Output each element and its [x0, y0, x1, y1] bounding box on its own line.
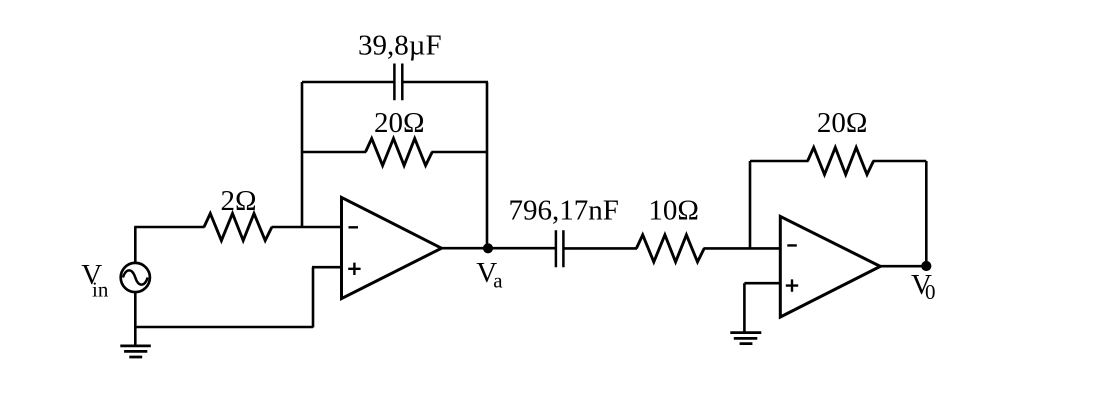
svg-text:796,17nF: 796,17nF	[509, 194, 619, 226]
svg-text:a: a	[493, 269, 503, 293]
svg-text:20Ω: 20Ω	[817, 107, 868, 139]
svg-text:2Ω: 2Ω	[220, 185, 256, 217]
svg-text:in: in	[92, 278, 109, 302]
svg-text:20Ω: 20Ω	[374, 107, 425, 139]
svg-text:39,8µF: 39,8µF	[358, 30, 442, 62]
svg-text:0: 0	[925, 280, 936, 304]
svg-text:10Ω: 10Ω	[648, 194, 699, 226]
